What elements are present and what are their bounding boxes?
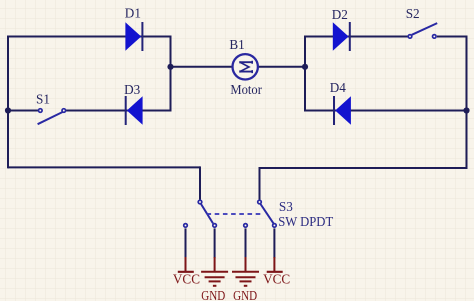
power port VCC right: [263, 257, 290, 287]
power port VCC left: [173, 257, 200, 287]
diode D4: [334, 96, 351, 125]
diode D3: [126, 96, 143, 125]
svg-text:S1: S1: [36, 91, 50, 106]
wire: top-left horizontal: [7, 36, 171, 38]
wire: right rail vertical: [466, 36, 468, 170]
wire: pin2 vertical (to GND left): [214, 228, 216, 258]
svg-text:SW DPDT: SW DPDT: [278, 214, 333, 229]
wire: pin1 vertical (to VCC left): [185, 228, 187, 258]
svg-text:D4: D4: [330, 80, 347, 95]
wire: right pole vertical: [259, 167, 261, 200]
junction node at left vertical / S1 row: [5, 107, 11, 113]
wire: bottom-right horizontal: [260, 167, 467, 169]
wire: S1 row left segment: [8, 110, 38, 112]
wire: D4 row horizontal: [305, 110, 467, 112]
svg-text:VCC: VCC: [263, 272, 290, 287]
wire: bottom-left horizontal: [8, 166, 200, 168]
wire: motor right: [258, 66, 305, 68]
svg-text:VCC: VCC: [173, 272, 200, 287]
wire: motor left: [171, 66, 233, 68]
wire: right loop left vertical: [304, 36, 306, 112]
wire: S1 row right segment to D3 and loop: [66, 110, 171, 112]
diode D1: [125, 22, 142, 51]
junction node at right loop / motor wire: [302, 64, 308, 70]
svg-text:D2: D2: [332, 7, 348, 22]
motor B1: [233, 54, 258, 79]
wire: left pole vertical: [199, 166, 201, 199]
wire: pin4 vertical (to VCC right): [273, 228, 275, 258]
switch S1: [38, 109, 66, 125]
svg-text:B1: B1: [229, 37, 244, 52]
switch S3 SW DPDT: [184, 200, 277, 227]
svg-text:S3: S3: [279, 199, 293, 214]
svg-text:S2: S2: [406, 6, 420, 21]
svg-text:D1: D1: [125, 5, 141, 20]
power port GND left: [201, 257, 228, 301]
wire: left loop right vertical: [170, 36, 172, 112]
wire: top-right horizontal left segment: [305, 36, 408, 38]
junction node at left loop / motor wire: [167, 64, 173, 70]
diode D2: [333, 22, 350, 51]
switch S2: [408, 23, 437, 38]
wire: pin3 vertical (to GND right): [245, 228, 247, 258]
svg-text:GND: GND: [233, 288, 257, 301]
power port GND right: [232, 257, 259, 301]
svg-text:D3: D3: [124, 82, 141, 97]
svg-text:GND: GND: [201, 288, 225, 301]
junction node at right rail / D4 row: [463, 107, 469, 113]
wire: left vertical: [7, 36, 9, 169]
wire: top-right horizontal right segment: [437, 36, 468, 38]
svg-text:Motor: Motor: [230, 82, 262, 97]
